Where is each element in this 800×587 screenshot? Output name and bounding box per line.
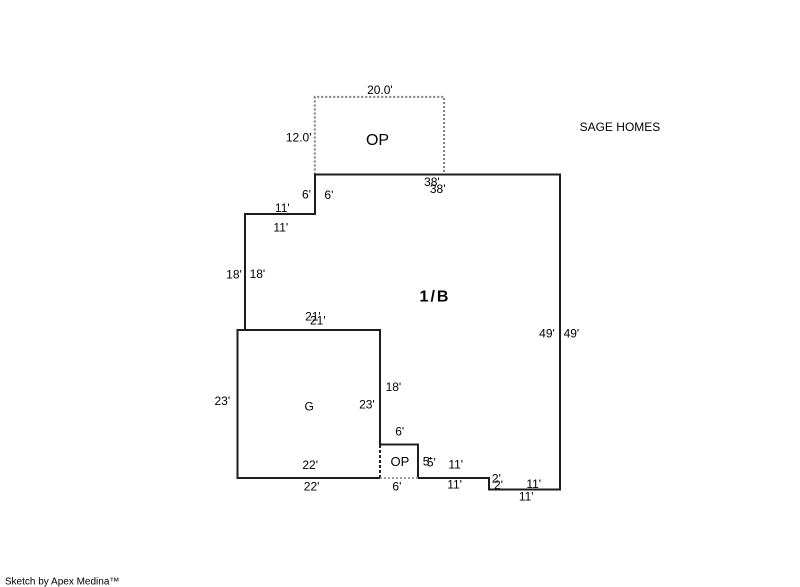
svg-text:49': 49' <box>564 327 580 341</box>
svg-text:Sketch by Apex Medina™: Sketch by Apex Medina™ <box>5 577 120 587</box>
svg-text:SAGE HOMES: SAGE HOMES <box>580 120 661 134</box>
svg-text:5': 5' <box>427 456 436 470</box>
svg-text:2': 2' <box>494 478 503 492</box>
svg-text:1/B: 1/B <box>420 289 451 306</box>
open porch OP (bottom small, dotted gray bottom edge) <box>380 477 418 479</box>
svg-text:OP: OP <box>391 454 410 469</box>
svg-text:12.0': 12.0' <box>286 131 312 145</box>
svg-text:23': 23' <box>359 398 375 412</box>
svg-text:18': 18' <box>386 380 402 394</box>
svg-text:20.0': 20.0' <box>367 83 393 97</box>
svg-text:6': 6' <box>392 480 401 494</box>
svg-text:11': 11' <box>275 201 290 215</box>
svg-text:11': 11' <box>447 478 462 492</box>
open porch OP (bottom small, dashed top and left edges) <box>380 445 418 479</box>
svg-text:11': 11' <box>448 458 463 472</box>
svg-text:22': 22' <box>302 458 318 472</box>
svg-text:6': 6' <box>302 188 311 202</box>
svg-text:11': 11' <box>273 221 288 235</box>
svg-text:OP: OP <box>366 132 389 149</box>
garage G rectangle <box>238 330 381 478</box>
svg-text:G: G <box>305 400 314 414</box>
svg-text:11': 11' <box>519 490 534 504</box>
svg-text:6': 6' <box>395 425 404 439</box>
main dwelling 1/B outline <box>245 175 560 490</box>
svg-text:21': 21' <box>310 314 326 328</box>
svg-text:18': 18' <box>250 267 266 281</box>
svg-text:49': 49' <box>539 327 555 341</box>
svg-text:23': 23' <box>214 394 230 408</box>
svg-text:38': 38' <box>430 182 446 196</box>
svg-text:22': 22' <box>304 479 320 493</box>
svg-text:18': 18' <box>226 268 242 282</box>
svg-text:6': 6' <box>324 188 333 202</box>
open porch OP (top, dashed outline) <box>315 97 444 175</box>
